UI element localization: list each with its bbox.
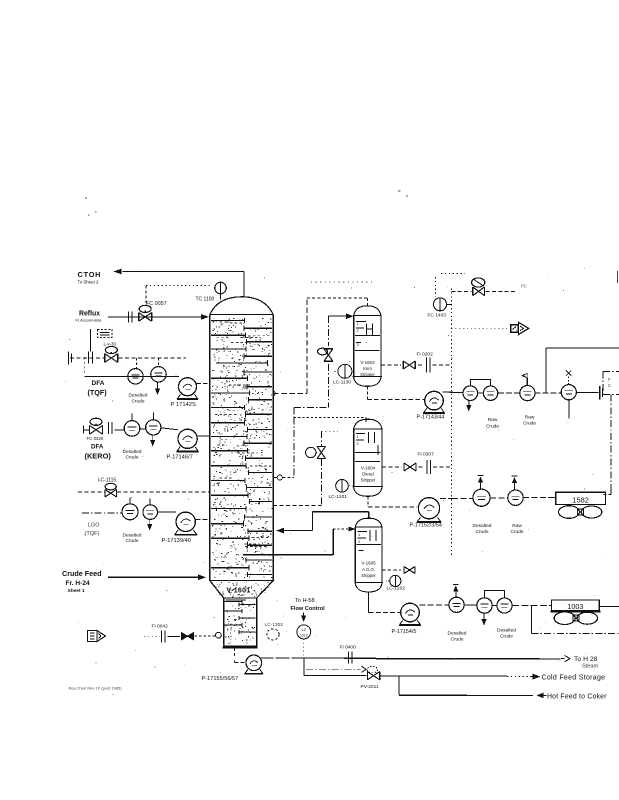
svg-text:LZ: LZ <box>302 628 307 632</box>
svg-text:TC 1100: TC 1100 <box>196 296 215 302</box>
valve right of V-1605 <box>404 566 415 573</box>
instrument circle row3 b <box>143 505 158 520</box>
label PV-2011 <box>361 684 379 690</box>
drawing reference text <box>69 685 123 690</box>
label P-17155/56/57 <box>202 676 239 682</box>
instrument circle y393 a <box>463 386 478 401</box>
svg-text:Fr. H-24: Fr. H-24 <box>66 580 91 587</box>
instrument box LV-1030 <box>98 330 113 338</box>
vertical dash x294 lower <box>293 417 295 477</box>
valve LV-1130 <box>318 348 333 361</box>
label LGO <box>85 523 100 538</box>
pump P-17152/3/54 <box>417 498 441 523</box>
signal dashes to valve <box>451 290 515 292</box>
svg-text:FI 0202: FI 0202 <box>417 352 434 358</box>
valve PV-2011 <box>367 672 379 680</box>
dashed line FI-0307 <box>382 466 451 468</box>
dashes below flanges row1 <box>84 357 86 373</box>
vapor return line V-1605 <box>276 512 369 534</box>
svg-text:Desalted: Desalted <box>123 532 142 538</box>
label LC-1202 <box>387 586 406 592</box>
svg-text:Crude: Crude <box>125 538 138 544</box>
pump P-17146/7 <box>177 429 199 452</box>
line crude feed <box>108 575 206 581</box>
flanges FI-0400 <box>349 652 353 664</box>
vertical dash-dot x328 <box>327 316 329 407</box>
dashed line FI-0202 <box>381 364 451 366</box>
line pump row2 to column <box>197 435 210 437</box>
svg-text:LGO: LGO <box>88 523 99 529</box>
label FI-0202 <box>417 352 434 358</box>
vessel V-1601 main column shell <box>210 297 273 581</box>
V-1603 internals <box>355 321 380 350</box>
control valve FC-0420 <box>90 418 103 434</box>
line to valve FI-0042 <box>168 635 181 637</box>
air cooler 1002 <box>548 492 605 504</box>
instrument circle y605 b <box>477 598 492 613</box>
down arrow y393 <box>466 401 471 412</box>
svg-text:Crude: Crude <box>510 529 523 535</box>
line pump row3 to column <box>195 519 209 521</box>
line pump row1 to column <box>197 383 210 385</box>
line cold feed <box>304 675 529 676</box>
elbow to column y393 <box>273 392 307 394</box>
svg-text:LC-1130: LC-1130 <box>333 380 351 386</box>
svg-text:(KERO): (KERO) <box>85 452 112 461</box>
label DFA TQF <box>88 380 108 397</box>
label Desalted Crude row2 <box>123 449 142 461</box>
down arrow y605 b <box>481 613 486 625</box>
scan speckle <box>66 268 615 694</box>
pump P-17155 <box>245 655 264 674</box>
svg-text:Hot Feed to Coker: Hot Feed to Coker <box>547 693 607 700</box>
svg-text:F: F <box>608 377 611 382</box>
V-1604 internals <box>355 432 381 462</box>
label Raw Crude y498 <box>510 523 523 535</box>
vertical dotted x451 <box>450 289 452 556</box>
dash-dot line row3 <box>82 512 122 514</box>
label P-17154/5 <box>392 629 417 635</box>
valve FI-0202 line <box>403 361 415 369</box>
svg-text:Crude: Crude <box>500 634 513 640</box>
instrument LZ <box>297 625 311 656</box>
line row2 <box>115 428 179 430</box>
flanges on reflux line <box>129 311 133 322</box>
control valve FC-0057 <box>139 305 152 321</box>
instrument LC-1130 <box>334 364 352 378</box>
label P-17143/44 <box>417 415 445 421</box>
line row y393 <box>443 392 599 393</box>
instrument circle y605 a <box>449 597 464 612</box>
svg-text:1582: 1582 <box>572 495 588 504</box>
label FI-0307 <box>418 452 435 458</box>
svg-text:V-1605: V-1605 <box>361 561 376 566</box>
pump P-17141/42S <box>177 378 198 400</box>
stub below d <box>566 400 569 424</box>
label P-17139/40 <box>162 538 191 544</box>
svg-text:LC-1202: LC-1202 <box>387 586 406 592</box>
signal dashes FC-0057 to column <box>146 285 211 303</box>
svg-text:FI 0400: FI 0400 <box>340 645 357 651</box>
svg-text:Stripper: Stripper <box>361 478 376 483</box>
up arrow y498 b <box>512 476 518 490</box>
svg-text:P-17146/7: P-17146/7 <box>167 455 193 461</box>
down arrow row1 <box>155 382 160 395</box>
svg-text:FC 0420: FC 0420 <box>87 436 104 441</box>
svg-text:Fr.Accumulata: Fr.Accumulata <box>76 317 102 322</box>
instrument circle row2 b <box>146 420 161 435</box>
svg-text:Crude: Crude <box>125 455 138 461</box>
flanges row2 <box>109 422 113 434</box>
vertical pipe stub row1 <box>90 329 92 352</box>
down arrow flow control <box>301 613 306 623</box>
svg-text:Desalted: Desalted <box>448 631 467 637</box>
valve bottom left black <box>182 633 194 640</box>
line CTOH overhead with arrow <box>114 269 245 298</box>
control valve top right <box>472 278 485 296</box>
instrument LC-1201 <box>336 480 353 493</box>
column internal trays <box>211 318 272 577</box>
svg-text:Diesel: Diesel <box>362 472 374 477</box>
svg-text:Crude: Crude <box>475 529 488 535</box>
down arrow row2 <box>150 435 155 446</box>
noise specks top left <box>85 191 408 215</box>
svg-text:Crude: Crude <box>486 424 499 430</box>
label LC-1302 <box>265 622 284 628</box>
svg-text:Rev.Chart Rev 1F (post 1: Rev.Chart Rev 1F (post 1985) <box>69 685 123 690</box>
down arrow row3 <box>147 519 152 530</box>
line row3 to pump <box>158 511 177 513</box>
vertical dash-dot x321 LV-1201 <box>321 431 339 505</box>
svg-text:P-17139/40: P-17139/40 <box>162 538 191 544</box>
noise speck right edge <box>617 271 619 283</box>
label Cold Feed Storage <box>542 674 606 681</box>
dashed line DFA draw <box>70 357 186 359</box>
line row y498 <box>440 497 556 500</box>
dotted overhead V-1603 <box>307 298 367 306</box>
V-1605 internals <box>357 530 382 551</box>
dotted actuator PV-2011 <box>367 666 378 672</box>
svg-text:Raw: Raw <box>525 414 535 420</box>
label Hot Feed to Coker <box>547 693 607 700</box>
line hot feed to coker <box>399 694 533 696</box>
svg-text:FI 0042: FI 0042 <box>152 623 169 629</box>
svg-text:P-17143/44: P-17143/44 <box>417 415 445 421</box>
elbow x328 to x294 <box>294 408 328 418</box>
pump P-17139/40 <box>175 512 197 535</box>
svg-text:V-1603: V-1603 <box>360 360 375 365</box>
instrument circle y498 a <box>473 489 490 506</box>
instrument circle y393 d <box>561 385 576 400</box>
bottom section top line <box>226 599 247 601</box>
instrument circle y393 b <box>483 386 497 400</box>
svg-text:C: C <box>608 383 611 388</box>
svg-text:PC: PC <box>521 284 527 289</box>
label LV-1030 <box>104 342 117 347</box>
svg-text:Desalted: Desalted <box>473 523 492 529</box>
label Desalted Crude y605 a <box>448 631 467 643</box>
label V-1605 <box>361 561 376 579</box>
label V-1603 <box>360 360 375 377</box>
V-1603 bottom line <box>367 386 424 399</box>
vessel V-1604 shell <box>353 419 383 496</box>
svg-text:Steam: Steam <box>582 664 599 670</box>
nozzle mark column right y393 <box>273 391 275 397</box>
V-1604 bottom line <box>368 496 418 507</box>
bridge over instruments <box>470 380 490 386</box>
vessel V-1603 shell <box>353 306 382 387</box>
svg-text:Flow Control: Flow Control <box>291 606 326 612</box>
svg-text:A.G.O.: A.G.O. <box>362 567 375 572</box>
dotted line to connector <box>451 327 510 329</box>
svg-text:DFA: DFA <box>91 443 104 450</box>
line feed V-1603 <box>328 313 353 319</box>
svg-text:Raw: Raw <box>488 417 498 423</box>
svg-text:P 17142S: P 17142S <box>171 402 196 408</box>
vertical dash line x307 <box>306 300 308 394</box>
label Reflux <box>76 310 102 322</box>
instrument circle row1 b <box>151 367 166 382</box>
label LC-1201 <box>329 494 348 500</box>
tiny text right of valve <box>521 284 527 289</box>
pump P-17143/44 <box>423 391 445 413</box>
instrument FC-1403 <box>434 298 452 311</box>
line row1 to pump <box>85 375 179 377</box>
valve LV-1201 <box>306 447 326 459</box>
stubs above row3 instruments <box>130 497 150 505</box>
svg-text:(TQF): (TQF) <box>88 388 108 397</box>
instrument circle y393 c <box>520 386 535 401</box>
stubs above row2 instruments <box>132 413 153 421</box>
flange before box <box>600 386 603 400</box>
faint dots line top <box>311 281 372 283</box>
svg-text:P-17155/56/57: P-17155/56/57 <box>202 676 239 682</box>
instrument TC-1100 <box>215 282 227 299</box>
line column to V-1605 draw <box>243 529 333 555</box>
column internal partial lines <box>215 322 271 574</box>
label DFA KERO <box>85 443 112 460</box>
svg-text:Crude: Crude <box>450 637 463 643</box>
line row y605 <box>419 604 551 607</box>
svg-text:Sheet 1: Sheet 1 <box>68 588 85 594</box>
svg-text:Desalted: Desalted <box>123 449 142 455</box>
svg-text:V-1604: V-1604 <box>361 466 376 471</box>
label To H 28 Steam <box>574 656 599 670</box>
svg-text:Desalted: Desalted <box>497 628 516 634</box>
dashed line LC-1115 <box>78 491 210 493</box>
label CTOH <box>78 270 102 284</box>
V-1601 bottom outlet <box>235 648 247 663</box>
label FC-1403 <box>428 313 447 319</box>
instrument circle y498 b <box>508 490 523 505</box>
label P-17146/7 <box>167 455 193 461</box>
dotted feed into V-1605 <box>333 526 355 531</box>
dotted line FI-0042 <box>144 635 160 637</box>
svg-text:FI 0307: FI 0307 <box>418 452 435 458</box>
label FI-0042 <box>152 623 169 629</box>
line end tick row1 <box>69 352 72 365</box>
label TC-1100 <box>196 296 215 302</box>
off-page connector bottom left <box>88 631 106 642</box>
label FI-0400 <box>340 645 357 651</box>
vertical x531 below row <box>530 605 532 633</box>
svg-text:Crude Feed: Crude Feed <box>62 569 102 578</box>
label Raw Crude 2 <box>523 414 536 426</box>
svg-text:To H-58: To H-58 <box>295 598 315 604</box>
vertical dash-dot x611 <box>610 395 612 491</box>
control valve LV-1030 <box>105 346 118 362</box>
label Desalted Crude row3 <box>123 532 142 544</box>
svg-text:Crude: Crude <box>131 398 144 404</box>
instrument LC-1202 <box>386 575 401 586</box>
elbow to nozzle circle <box>274 475 294 480</box>
control valve LC-1115 <box>105 483 117 497</box>
svg-text:Stripper: Stripper <box>361 573 376 578</box>
svg-text:Kero: Kero <box>363 366 373 371</box>
dotted feed line V-1604 <box>294 417 366 422</box>
svg-text:Stripper: Stripper <box>360 372 375 377</box>
svg-text:FC 1403: FC 1403 <box>428 313 447 319</box>
stub row2 <box>83 426 89 434</box>
instrument circle y605 c <box>497 598 512 613</box>
fan cooler 1002 <box>559 506 602 519</box>
label To H-58 Flow Control <box>291 598 326 612</box>
dashes to column nozzle <box>195 632 222 638</box>
vertical line x546 bridge <box>546 348 619 393</box>
label Desalted Crude y498 <box>473 523 492 535</box>
dashes x321 to column y505 <box>273 504 321 506</box>
branch to cold feed <box>303 658 305 676</box>
open arrow steam <box>561 655 570 661</box>
branch hot feed <box>398 676 400 695</box>
label V-1601 <box>227 588 251 595</box>
label LC-1115 <box>98 478 117 484</box>
label Raw Crude 1 <box>486 417 499 429</box>
svg-text:P-17154/5: P-17154/5 <box>392 629 417 635</box>
up arrow y605 a <box>453 585 459 597</box>
column bottom cone <box>210 581 273 599</box>
signal drops to row1 instruments <box>136 358 158 368</box>
svg-text:(TQF): (TQF) <box>85 531 100 537</box>
svg-text:Reflux: Reflux <box>79 310 100 317</box>
vessel V-1605 shell <box>354 518 383 592</box>
svg-text:I-C-1115: I-C-1115 <box>98 478 117 484</box>
svg-text:Raw: Raw <box>512 523 522 529</box>
svg-text:To Sheet 2: To Sheet 2 <box>78 279 100 284</box>
pump P-17154/5 <box>399 603 421 625</box>
flanges FI-0202 <box>427 358 431 373</box>
instrument circle row3 a <box>122 504 138 520</box>
up arrow y498 a <box>478 476 484 489</box>
label Desalted Crude y605 c <box>497 628 516 640</box>
svg-text:CTOH: CTOH <box>78 270 102 279</box>
line to H-28 steam <box>260 658 561 659</box>
dashes right of V-1605 <box>382 569 401 571</box>
bottom section trays <box>225 600 256 635</box>
off-page connector mid right <box>511 322 529 334</box>
cone and bottom section speckle <box>216 582 269 643</box>
label P-17142S <box>171 402 196 408</box>
svg-text:Cold Feed Storage: Cold Feed Storage <box>542 674 606 681</box>
flanges row1 <box>89 352 93 364</box>
label Desalted Crude row1 <box>129 393 148 405</box>
svg-text:...: ... <box>566 419 569 424</box>
flanges FI-0307 <box>427 460 431 474</box>
dotted stub above FC-1403 <box>436 274 466 297</box>
line right of cooler 1003 <box>599 605 619 607</box>
cooler 1002 right connection <box>604 490 612 497</box>
bridge over y605 bc <box>485 591 505 598</box>
signal dash-dot PV-2011 <box>306 666 366 672</box>
svg-text:To H 28: To H 28 <box>574 656 598 663</box>
svg-text:Desalted: Desalted <box>129 393 148 399</box>
flanges FI-0042 <box>162 630 166 642</box>
instrument circle row2 a <box>124 421 140 437</box>
label FC-0420 <box>87 436 104 441</box>
svg-text:P-17152/3/54: P-17152/3/54 <box>410 522 442 528</box>
connector box right edge <box>603 371 619 394</box>
flag X over d <box>566 371 571 385</box>
valve FI-0307 line <box>404 463 416 471</box>
V-1605 bottom line <box>369 592 401 612</box>
line reflux into column <box>108 314 209 320</box>
svg-text:1313: 1313 <box>300 633 308 637</box>
fan cooler 1003 <box>554 612 597 625</box>
vessel V-1601 bottom stripping section <box>223 598 258 648</box>
column speckle noise <box>212 318 273 577</box>
label FC-0057 <box>146 301 167 307</box>
label LC-1130 <box>333 380 351 386</box>
svg-text:Crude: Crude <box>523 421 536 427</box>
air cooler 1003 <box>551 600 601 612</box>
arrow hot feed <box>537 693 547 699</box>
svg-text:PV-2011: PV-2011 <box>361 684 379 690</box>
svg-text:LC-1201: LC-1201 <box>329 494 348 500</box>
instrument circle row1 a <box>128 369 143 384</box>
arrow cold feed storage <box>530 674 541 680</box>
label P-17152/3/54 <box>410 522 442 528</box>
svg-text:1003: 1003 <box>567 602 583 611</box>
flag A over c <box>522 373 527 386</box>
label Crude Feed <box>62 569 102 594</box>
svg-text:DFA: DFA <box>92 380 105 387</box>
label V-1604 <box>361 466 376 483</box>
svg-text:LC-1302: LC-1302 <box>265 622 284 628</box>
dash-dot bottom right <box>531 633 619 635</box>
dashed circle LC-1302 <box>267 629 279 640</box>
